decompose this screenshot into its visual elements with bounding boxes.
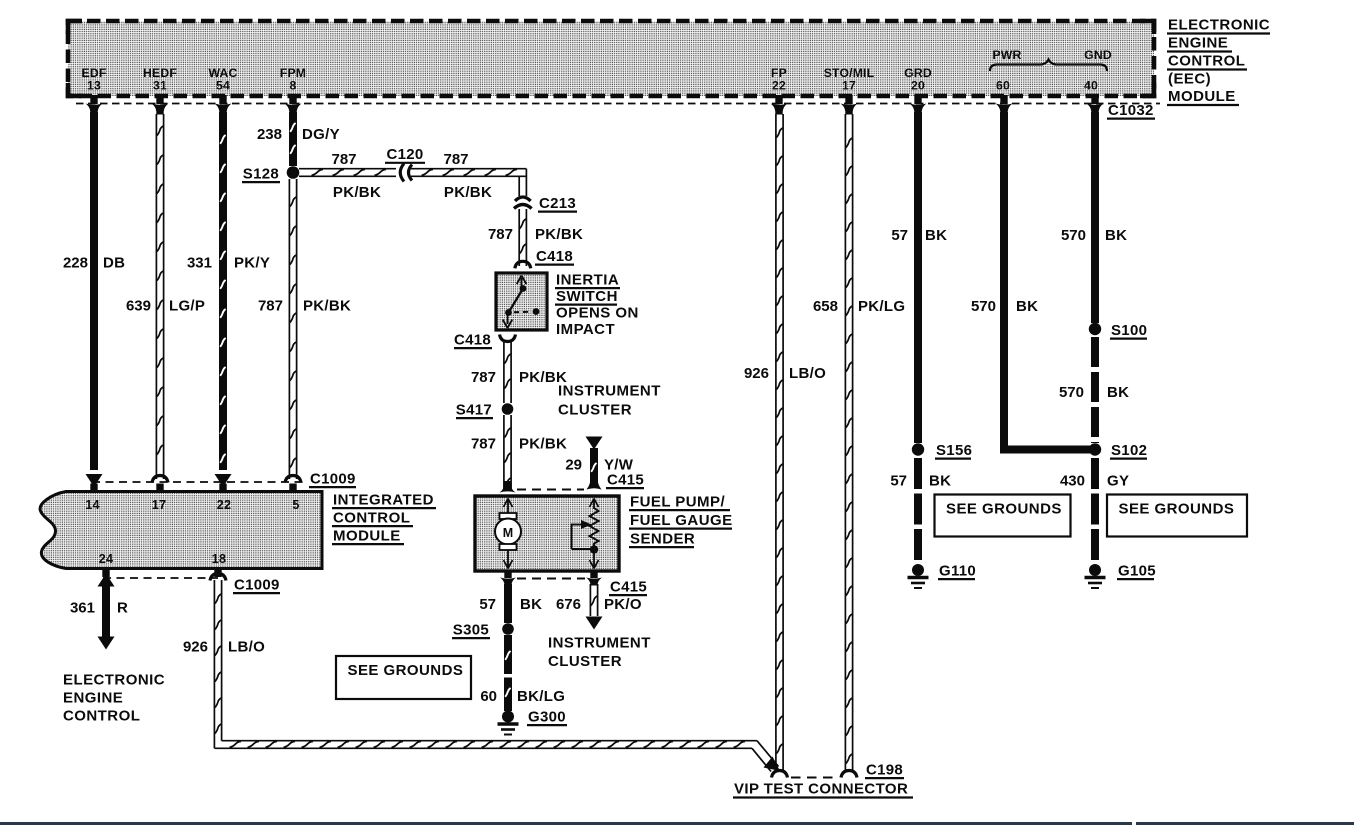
svg-text:PK/Y: PK/Y	[234, 255, 270, 272]
svg-text:PK/BK: PK/BK	[444, 184, 492, 201]
svg-text:570: 570	[1061, 227, 1086, 244]
svg-text:60: 60	[996, 79, 1010, 93]
svg-text:C415: C415	[607, 472, 644, 489]
svg-text:14: 14	[85, 498, 99, 512]
svg-text:BK: BK	[520, 596, 542, 613]
svg-text:787: 787	[258, 298, 283, 315]
svg-text:C415: C415	[610, 579, 647, 596]
svg-text:C198: C198	[866, 762, 903, 779]
svg-text:(EEC): (EEC)	[1168, 71, 1211, 88]
svg-text:M: M	[503, 526, 513, 540]
svg-text:S417: S417	[456, 402, 492, 419]
svg-text:787: 787	[488, 226, 513, 243]
svg-text:C213: C213	[539, 195, 576, 212]
svg-text:8: 8	[290, 79, 297, 93]
svg-text:OPENS ON: OPENS ON	[556, 305, 639, 322]
svg-text:ELECTRONIC: ELECTRONIC	[63, 672, 165, 689]
svg-text:BK/LG: BK/LG	[517, 688, 565, 705]
svg-text:IMPACT: IMPACT	[556, 321, 615, 338]
svg-text:VIP TEST CONNECTOR: VIP TEST CONNECTOR	[734, 781, 908, 798]
svg-text:INTEGRATED: INTEGRATED	[333, 492, 434, 509]
svg-text:G300: G300	[528, 709, 566, 726]
svg-text:676: 676	[556, 596, 581, 613]
svg-text:238: 238	[257, 126, 282, 143]
svg-text:658: 658	[813, 298, 838, 315]
svg-text:24: 24	[99, 552, 113, 566]
svg-text:SENDER: SENDER	[630, 531, 695, 548]
svg-text:GND: GND	[1084, 48, 1112, 62]
svg-text:57: 57	[479, 596, 496, 613]
svg-text:228: 228	[63, 255, 88, 272]
svg-text:SEE GROUNDS: SEE GROUNDS	[946, 501, 1062, 518]
svg-text:CONTROL: CONTROL	[333, 510, 410, 527]
svg-text:BK: BK	[1105, 227, 1127, 244]
svg-text:BK: BK	[1107, 384, 1129, 401]
svg-text:C1009: C1009	[310, 471, 356, 488]
svg-text:SEE GROUNDS: SEE GROUNDS	[348, 662, 464, 679]
svg-text:G105: G105	[1118, 563, 1156, 580]
svg-text:570: 570	[1059, 384, 1084, 401]
svg-text:361: 361	[70, 600, 95, 617]
svg-text:787: 787	[331, 151, 356, 168]
svg-text:SEE GROUNDS: SEE GROUNDS	[1119, 501, 1235, 518]
svg-text:PK/BK: PK/BK	[519, 436, 567, 453]
svg-text:31: 31	[153, 79, 167, 93]
svg-text:570: 570	[971, 298, 996, 315]
svg-text:S100: S100	[1111, 322, 1147, 339]
svg-text:CONTROL: CONTROL	[63, 708, 140, 725]
svg-text:C1032: C1032	[1108, 102, 1154, 119]
svg-text:787: 787	[471, 369, 496, 386]
svg-text:GY: GY	[1107, 473, 1129, 490]
svg-text:LB/O: LB/O	[228, 639, 265, 656]
svg-text:INERTIA: INERTIA	[556, 272, 619, 289]
svg-text:22: 22	[772, 79, 786, 93]
svg-text:20: 20	[911, 79, 925, 93]
svg-text:LG/P: LG/P	[169, 298, 205, 315]
svg-text:S156: S156	[936, 442, 972, 459]
svg-text:MODULE: MODULE	[1168, 88, 1236, 105]
svg-text:INSTRUMENT: INSTRUMENT	[558, 383, 661, 400]
svg-text:CLUSTER: CLUSTER	[558, 402, 632, 419]
svg-text:LB/O: LB/O	[789, 365, 826, 382]
svg-text:787: 787	[471, 436, 496, 453]
svg-text:C120: C120	[386, 146, 423, 163]
svg-text:ENGINE: ENGINE	[1168, 35, 1228, 52]
svg-text:PWR: PWR	[992, 48, 1021, 62]
svg-text:ELECTRONIC: ELECTRONIC	[1168, 17, 1270, 34]
svg-text:PK/O: PK/O	[604, 596, 642, 613]
svg-text:INSTRUMENT: INSTRUMENT	[548, 635, 651, 652]
svg-text:ENGINE: ENGINE	[63, 690, 123, 707]
svg-text:40: 40	[1084, 79, 1098, 93]
svg-text:22: 22	[217, 498, 231, 512]
svg-text:29: 29	[565, 457, 582, 474]
svg-text:57: 57	[891, 227, 908, 244]
svg-text:FUEL GAUGE: FUEL GAUGE	[630, 512, 733, 529]
svg-text:639: 639	[126, 298, 151, 315]
svg-text:926: 926	[183, 639, 208, 656]
svg-text:PK/LG: PK/LG	[858, 298, 905, 315]
svg-text:CLUSTER: CLUSTER	[548, 653, 622, 670]
svg-text:PK/BK: PK/BK	[333, 184, 381, 201]
svg-text:R: R	[117, 600, 128, 617]
svg-text:BK: BK	[1016, 298, 1038, 315]
svg-text:DB: DB	[103, 255, 125, 272]
svg-text:787: 787	[443, 151, 468, 168]
svg-text:17: 17	[842, 79, 856, 93]
svg-text:57: 57	[890, 473, 907, 490]
svg-text:C1009: C1009	[234, 577, 280, 594]
svg-text:18: 18	[212, 552, 226, 566]
svg-text:G110: G110	[939, 563, 976, 580]
svg-text:S102: S102	[1111, 442, 1147, 459]
svg-text:BK: BK	[925, 227, 947, 244]
svg-text:926: 926	[744, 365, 769, 382]
svg-text:17: 17	[152, 498, 166, 512]
svg-text:PK/BK: PK/BK	[535, 226, 583, 243]
svg-text:60: 60	[480, 688, 497, 705]
svg-text:S305: S305	[453, 622, 489, 639]
svg-text:C418: C418	[454, 332, 491, 349]
svg-text:331: 331	[187, 255, 212, 272]
svg-text:S128: S128	[243, 166, 279, 183]
svg-text:BK: BK	[929, 473, 951, 490]
svg-text:FUEL PUMP/: FUEL PUMP/	[630, 494, 725, 511]
svg-text:C418: C418	[536, 248, 573, 265]
svg-text:PK/BK: PK/BK	[303, 298, 351, 315]
svg-text:MODULE: MODULE	[333, 528, 401, 545]
svg-text:DG/Y: DG/Y	[302, 126, 340, 143]
svg-text:430: 430	[1060, 473, 1085, 490]
svg-text:CONTROL: CONTROL	[1168, 53, 1245, 70]
svg-text:13: 13	[87, 79, 101, 93]
svg-text:54: 54	[216, 79, 230, 93]
svg-text:5: 5	[292, 498, 299, 512]
svg-text:SWITCH: SWITCH	[556, 288, 618, 305]
